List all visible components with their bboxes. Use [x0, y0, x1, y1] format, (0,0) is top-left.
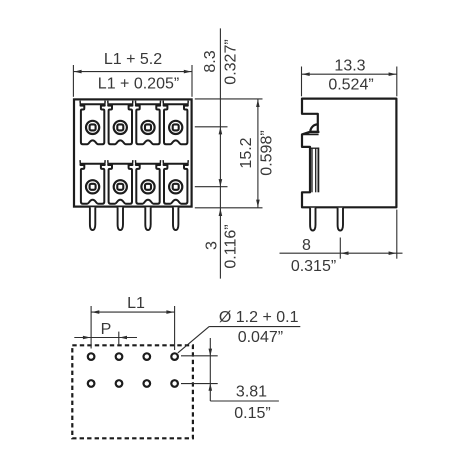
- hole diameter leader Ø 1.2 + 0.1 / 0.047": [178, 309, 300, 353]
- solder hole 6: [116, 380, 123, 387]
- solder hole 4: [171, 353, 178, 360]
- side pin row 1: [310, 208, 315, 231]
- contact cell 4: [163, 101, 188, 145]
- dimension 8.3 / 0.327" (row spacing): [202, 28, 239, 278]
- dimension 15.2 / 0.598" (front height): [238, 99, 276, 208]
- contact cell 5: [80, 160, 105, 204]
- side view latch hook arc: [310, 124, 318, 131]
- side pin row 2: [338, 208, 343, 231]
- dimension P (pitch): [74, 321, 137, 345]
- svg-text:L1 + 0.205”: L1 + 0.205”: [98, 76, 179, 93]
- svg-text:13.3: 13.3: [334, 57, 365, 74]
- svg-text:L1 + 5.2: L1 + 5.2: [104, 51, 162, 68]
- svg-text:3: 3: [204, 241, 221, 250]
- side view contact strip ribs: [310, 148, 318, 193]
- svg-text:8: 8: [302, 237, 311, 254]
- dimension 3.81 / 0.15" (row pitch): [181, 338, 279, 422]
- svg-text:0.116”: 0.116”: [223, 224, 240, 268]
- svg-text:Ø 1.2 + 0.1: Ø 1.2 + 0.1: [219, 309, 299, 326]
- right-side extension lines of front view: [195, 99, 263, 208]
- dimension 13.3 / 0.524" (side width): [302, 57, 397, 96]
- dimension 8 / 0.315" (pin to edge): [280, 210, 403, 275]
- dimension L1 (hole span): [91, 295, 175, 350]
- PCB footprint dashed outline: [72, 345, 193, 438]
- contact cell 6: [108, 160, 133, 204]
- solder hole 7: [144, 380, 151, 387]
- svg-text:3.81: 3.81: [236, 384, 267, 401]
- svg-text:0.15”: 0.15”: [234, 405, 270, 422]
- front view: connector body: [74, 99, 192, 206]
- svg-text:0.598”: 0.598”: [258, 130, 275, 175]
- contact cell 2: [108, 101, 133, 145]
- svg-text:15.2: 15.2: [238, 137, 255, 168]
- svg-text:0.524”: 0.524”: [328, 77, 373, 94]
- dimension L1+5.2 / L1+0.205" (front width): [73, 51, 192, 97]
- contact cell 8: [163, 160, 188, 204]
- svg-text:L1: L1: [127, 295, 145, 312]
- contact cell 1: [80, 101, 105, 145]
- svg-text:0.315”: 0.315”: [291, 258, 336, 275]
- front pin 4: [173, 207, 178, 230]
- svg-text:0.047”: 0.047”: [238, 329, 283, 346]
- dimension 3 / 0.116" (pin length): [204, 208, 240, 268]
- side view latch ledge: [310, 131, 320, 133]
- svg-text:8.3: 8.3: [202, 50, 219, 72]
- contact cell 7: [136, 160, 161, 204]
- side view: connector body profile: [302, 99, 396, 208]
- front pin 3: [145, 207, 150, 230]
- side view housing step line: [302, 133, 318, 135]
- solder hole 2: [116, 353, 123, 360]
- front pin 2: [118, 207, 123, 230]
- solder hole 5: [88, 380, 95, 387]
- contact cell 3: [136, 101, 161, 145]
- solder hole 1: [88, 353, 95, 360]
- svg-text:P: P: [101, 321, 112, 338]
- svg-text:0.327”: 0.327”: [223, 39, 240, 84]
- solder hole 3: [144, 353, 151, 360]
- solder hole 8: [171, 380, 178, 387]
- front pin 1: [90, 207, 95, 230]
